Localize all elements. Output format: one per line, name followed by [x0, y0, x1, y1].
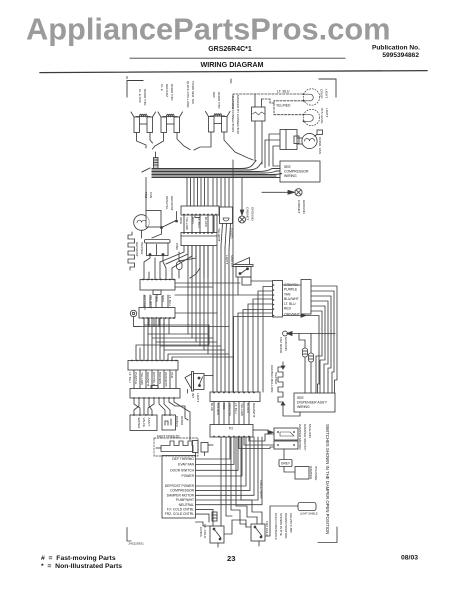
svg-text:DEF THERMO: DEF THERMO [172, 457, 194, 461]
DIAGRAM [138, 81, 240, 135]
wire dashed LT. BLU [233, 94, 304, 115]
svg-text:ASS'Y: ASS'Y [147, 418, 151, 427]
svg-text:AppliancePartsPros.com: AppliancePartsPros.com [26, 12, 391, 47]
svg-text:COMPRESSOR: COMPRESSOR [170, 489, 194, 493]
wire bundle harness [142, 161, 282, 178]
svg-text:LT. BLU: LT. BLU [284, 302, 296, 306]
svg-text:CABINET: CABINET [297, 200, 301, 214]
damper motor assembly [268, 424, 312, 450]
plug P3 lower [130, 370, 180, 399]
light switch 1 [233, 258, 273, 296]
inline connector oval [177, 252, 183, 278]
svg-text:GROUND: GROUND [284, 337, 288, 352]
fuse block F1 [220, 207, 233, 250]
svg-text:* = Non-Illustrated Parts: * = Non-Illustrated Parts [41, 563, 122, 570]
wire to cabinet ground [262, 158, 295, 194]
plug P1 upper [140, 258, 175, 295]
svg-text:YELLOW: YELLOW [185, 217, 189, 230]
defrost switch lever [152, 212, 178, 239]
wire to light shield [266, 503, 318, 537]
svg-text:PURPLE: PURPLE [284, 288, 298, 292]
heater shield box [146, 211, 161, 228]
water valve assembly box [130, 414, 157, 430]
svg-text:VIOLET/WHT: VIOLET/WHT [259, 480, 263, 499]
bottom left corner bracket [127, 528, 131, 542]
label light switch 1 [225, 255, 234, 267]
svg-text:MARKED BY CONNECTOR: MARKED BY CONNECTOR [236, 95, 240, 135]
svg-text:SEE: SEE [284, 165, 292, 169]
svg-text:RED/WHT: RED/WHT [146, 372, 150, 387]
defrost thermostat [144, 240, 170, 275]
top-right corner bracket [319, 79, 336, 97]
heater H2 [158, 112, 183, 133]
svg-text:CL & FRZ: CL & FRZ [138, 89, 142, 103]
svg-text:HEATER: HEATER [274, 372, 278, 385]
svg-text:DAMPER: DAMPER [309, 466, 313, 480]
wires P5 lower drops [160, 246, 208, 278]
plug P5 upper [181, 206, 219, 218]
compressor relay box [265, 130, 299, 168]
heater H1 [131, 112, 156, 133]
svg-text:ORG/YEL: ORG/YEL [165, 196, 169, 210]
svg-text:TAN: TAN [284, 292, 291, 296]
svg-text:WIRING: WIRING [297, 405, 310, 409]
svg-text:FRZ DOOR: FRZ DOOR [279, 337, 283, 354]
svg-text:GREY: GREY [281, 462, 291, 466]
lamp holder key [130, 310, 140, 326]
labels P5 wires [179, 217, 208, 230]
wires P3 lower to valves [134, 399, 190, 441]
svg-text:PUMP/WHT: PUMP/WHT [176, 498, 194, 502]
cold control 2 [251, 517, 269, 546]
svg-text:GROUND: GROUND [251, 207, 255, 222]
mid weave horizontals [134, 246, 273, 392]
svg-text:BROWN: BROWN [158, 372, 162, 384]
svg-text:LT. BLU: LT. BLU [234, 403, 238, 414]
inline connectors right [303, 334, 314, 394]
svg-text:REF: REF [212, 92, 216, 98]
label cabinet ground [297, 200, 306, 215]
plug P5 lower [181, 215, 217, 246]
svg-text:BLUE: BLUE [210, 403, 214, 411]
svg-text:MULLION: MULLION [308, 424, 312, 438]
svg-text:ORG: ORG [179, 217, 183, 225]
svg-text:WATER: WATER [137, 418, 141, 430]
svg-text:DOOR: DOOR [180, 416, 184, 426]
wires control box to risers [196, 437, 263, 522]
label org/yel [165, 196, 174, 211]
svg-text:DOOR SWITCH: DOOR SWITCH [170, 468, 194, 472]
label fused [217, 228, 234, 242]
freezer door switch box [162, 414, 184, 430]
lamp crisper light [303, 89, 320, 105]
svg-text:F.F. COLD CNTRL: F.F. COLD CNTRL [167, 508, 194, 512]
svg-text:LIGHT: LIGHT [325, 89, 329, 98]
svg-text:WHT/BLK: WHT/BLK [152, 372, 156, 387]
svg-text:KELVIN P-850: KELVIN P-850 [289, 513, 293, 533]
svg-text:THAW SER. 500: THAW SER. 500 [191, 81, 195, 104]
label light switch 2 [191, 393, 200, 402]
svg-text:DAMPER MOTOR: DAMPER MOTOR [167, 493, 195, 497]
svg-text:PINK: PINK [175, 243, 179, 251]
svg-text:LIGHT SHIELD: LIGHT SHIELD [300, 512, 318, 516]
top-left corner bracket [127, 81, 143, 98]
cabinet ground symbol [295, 189, 302, 196]
svg-text:YELLOW: YELLOW [240, 403, 244, 416]
svg-text:WIRING DIAGRAM: WIRING DIAGRAM [200, 60, 263, 69]
evap ground symbol [239, 178, 246, 224]
svg-text:LIGHT: LIGHT [196, 393, 200, 402]
label pink [175, 243, 179, 251]
lamp hi level light [303, 109, 320, 125]
svg-text:COND. FAN: COND. FAN [318, 137, 322, 154]
svg-text:23: 23 [227, 554, 235, 563]
bottom right corner bracket [318, 527, 337, 543]
wires J2 to right risers [273, 284, 337, 335]
wire between cold controls [224, 520, 251, 534]
heater H3 [206, 112, 231, 133]
cold control capillary [212, 512, 217, 521]
svg-text:COMPRESSOR: COMPRESSOR [284, 170, 309, 174]
defrost heater element [128, 232, 135, 270]
freezer door ground [279, 331, 335, 354]
relay R1 box [252, 94, 266, 121]
svg-text:HOUSING: HOUSING [314, 466, 318, 481]
junction box J2 [301, 280, 311, 315]
plug P1 lower [139, 295, 175, 334]
labels P1 wires [143, 295, 172, 309]
svg-text:GRS26R4C*1: GRS26R4C*1 [208, 46, 252, 53]
svg-text:NEUTRAL: NEUTRAL [179, 503, 195, 507]
svg-text:QUICK CHILL AND: QUICK CHILL AND [186, 81, 190, 108]
svg-text:P2: P2 [229, 427, 233, 431]
wire drops to plug P5 [187, 178, 217, 207]
svg-text:BLACK: BLACK [204, 217, 208, 228]
svg-text:LT. BLU: LT. BLU [277, 90, 290, 94]
svg-text:5995394862: 5995394862 [382, 52, 419, 59]
svg-text:YEL/WHT: YEL/WHT [217, 228, 221, 242]
condenser fan motor [297, 130, 323, 149]
svg-text:POWER: POWER [182, 474, 195, 478]
svg-text:SHOWN IN THE: SHOWN IN THE [279, 513, 283, 536]
svg-text:BLU/WHT: BLU/WHT [284, 297, 299, 301]
svg-text:HEATER: HEATER [140, 242, 144, 255]
svg-text:DAMPER SWITCH: DAMPER SWITCH [303, 424, 307, 450]
tick N [230, 79, 232, 83]
svg-text:PURPLE: PURPLE [134, 372, 138, 384]
svg-text:DOOR HTR: DOOR HTR [143, 89, 147, 106]
svg-text:WIRING: WIRING [284, 174, 297, 178]
svg-text:FRZ. COLD CNTRL: FRZ. COLD CNTRL [165, 512, 194, 516]
junction box J1 [273, 281, 283, 318]
label hi level light [320, 108, 329, 125]
wires P2 to damper [239, 430, 274, 449]
svg-text:RED: RED [284, 307, 292, 311]
svg-text:DISPENSER ASS'Y: DISPENSER ASS'Y [297, 401, 328, 405]
light switch 2 [185, 372, 213, 394]
svg-text:Publication No.: Publication No. [372, 45, 420, 52]
compressor wiring box [280, 161, 320, 182]
svg-text:CNTRL: CNTRL [199, 527, 203, 538]
mid weave verticals [213, 121, 262, 392]
svg-text:LIGHT: LIGHT [325, 108, 329, 117]
svg-text:DEFROST: DEFROST [170, 196, 174, 211]
svg-text:YELLOW: YELLOW [140, 372, 144, 385]
svg-text:LT. BLU: LT. BLU [128, 372, 132, 383]
svg-text:DEFROST POWER: DEFROST POWER [165, 484, 195, 488]
svg-text:COLD CONTROLS: COLD CONTROLS [274, 513, 278, 540]
label defrost heater [135, 242, 144, 257]
wire heater legs [137, 132, 254, 160]
wires bottom risers [196, 437, 263, 527]
svg-text:WARM POSITION: WARM POSITION [284, 513, 288, 538]
header rule lower [40, 71, 427, 73]
svg-text:DEFROST: DEFROST [135, 242, 139, 257]
labels P3 wires [128, 372, 174, 387]
label evap ground [246, 207, 255, 222]
labels wire colors J1 [284, 283, 300, 317]
control terminal box [162, 456, 196, 519]
cold control 1 [199, 522, 224, 547]
svg-text:FAN: FAN [149, 192, 153, 198]
wires P1 lower drops to plug P3 [136, 319, 233, 361]
svg-text:08/03: 08/03 [401, 555, 418, 562]
svg-text:# = Fast-moving Parts: # = Fast-moving Parts [41, 555, 116, 562]
damper housing box [284, 466, 318, 481]
grey splice [279, 449, 292, 467]
plug P3 upper [128, 360, 178, 370]
plug P2 upper [210, 392, 260, 402]
svg-text:DAMPER MOTOR: DAMPER MOTOR [298, 424, 302, 450]
dispenser wiring box [294, 393, 335, 412]
svg-text:INT: INT [191, 393, 195, 398]
header rule upper [130, 57, 345, 59]
labels P2 wires [210, 403, 256, 418]
svg-text:LIGHT: LIGHT [225, 255, 229, 264]
label cold controls note [274, 513, 293, 540]
svg-text:SWITCHES SHOWN IN THE DAMPER O: SWITCHES SHOWN IN THE DAMPER OPEN POSITI… [325, 424, 330, 534]
label crisp light [320, 89, 329, 98]
svg-text:REF/FRZ: REF/FRZ [165, 84, 169, 97]
svg-text:ORG/WHT: ORG/WHT [164, 372, 168, 387]
svg-text:CABINET: CABINET [246, 207, 250, 221]
wires into dispenser box [283, 334, 337, 417]
svg-text:LT. BLU: LT. BLU [168, 295, 172, 306]
svg-text:SEE: SEE [297, 396, 305, 400]
label frz fan [144, 192, 153, 198]
svg-text:2415293S1: 2415293S1 [129, 542, 145, 546]
wire bundle terminal [154, 152, 159, 169]
svg-text:VALVE: VALVE [142, 418, 146, 428]
svg-text:CL &: CL & [160, 84, 164, 92]
svg-text:EVAP FAN: EVAP FAN [178, 463, 194, 467]
svg-text:DOOR HTR: DOOR HTR [170, 84, 174, 101]
svg-text:HI'S LEVEL: HI'S LEVEL [320, 108, 324, 125]
svg-text:CRISP: CRISP [320, 89, 324, 98]
fast freeze control dashed box [154, 438, 213, 456]
svg-text:WATER: WATER [175, 416, 179, 428]
svg-text:FRZ COLD: FRZ COLD [265, 521, 269, 537]
svg-text:TAN: TAN [170, 372, 174, 378]
svg-text:GROUND: GROUND [302, 200, 306, 215]
plug P2 lower [210, 402, 253, 437]
svg-text:YEL/RED: YEL/RED [276, 104, 291, 108]
svg-text:DOOR HTR: DOOR HTR [217, 92, 221, 109]
label cond fan [318, 137, 322, 154]
center mullion heater [270, 362, 285, 406]
evaporator fan motor [134, 178, 150, 239]
svg-text:RED/WHT: RED/WHT [252, 403, 256, 418]
